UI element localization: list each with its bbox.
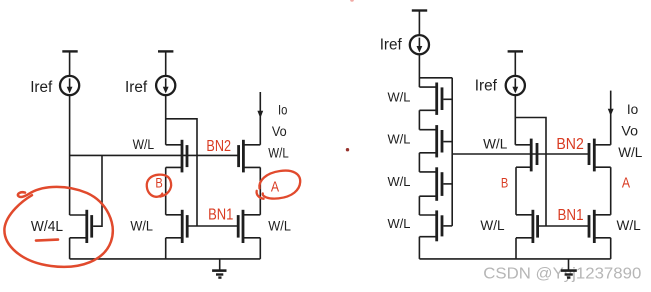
svg-text:Iref: Iref (380, 37, 403, 54)
svg-text:W/L: W/L (480, 218, 505, 233)
svg-text:A: A (622, 174, 630, 191)
node B wire (right circuit) (515, 167, 517, 215)
svg-text:Io: Io (627, 102, 639, 117)
node A wire (left circuit) (259, 167, 261, 214)
svg-text:W/L: W/L (388, 132, 411, 147)
svg-text:Iref: Iref (125, 79, 148, 96)
svg-text:Iref: Iref (30, 79, 53, 96)
wire: M1 source to ground rail (165, 238, 167, 259)
hand-drawn underline below W/4L (36, 240, 58, 241)
transistor cascode W/L (right circuit) (515, 139, 537, 172)
svg-text:Vo: Vo (272, 124, 287, 139)
svg-text:B: B (501, 175, 508, 191)
svg-text:W/L: W/L (617, 218, 642, 233)
current source Iref1 (left circuit, left branch) (60, 51, 79, 95)
svg-text:W/L: W/L (130, 218, 153, 233)
wire: W/4L source to ground rail (69, 238, 71, 259)
wire: cascode drain over to BN1 gate rail (166, 119, 197, 226)
wire: stack rail cell3-cell4 (418, 196, 420, 215)
ground rail (right circuit) (419, 258, 610, 260)
svg-text:BN1: BN1 (558, 207, 584, 224)
node B wire (left circuit) (165, 167, 167, 214)
transistor M2 W/L (BN1 row right device, left circuit) (238, 210, 260, 243)
svg-text:W/L: W/L (388, 89, 411, 104)
wire: Iref1 down to W/4L drain (69, 95, 71, 215)
ground symbol (left circuit) (212, 259, 226, 278)
wire: BN1 gate rail (left circuit) (187, 225, 238, 227)
transistor BN2 output cascode (right circuit) (589, 139, 611, 172)
svg-text:Iref: Iref (475, 78, 498, 95)
wire: Iref2 down to cascode drain (165, 95, 167, 145)
wire: M2 source to ground rail (right circuit) (610, 238, 612, 259)
hand-drawn oval around W/4L (4, 187, 112, 267)
current source Iref2 (left circuit, second branch) (156, 51, 175, 95)
svg-text:Io: Io (278, 102, 288, 117)
svg-text:W/L: W/L (618, 145, 643, 160)
wire: stack main rail from Iref down to first drain (418, 54, 420, 87)
transistor BN2 output cascode (left circuit) (239, 140, 261, 173)
transistor W/4L diode-connected bias device (70, 155, 102, 243)
transistor M2 W/L (BN1 row right device, right circuit) (589, 210, 611, 243)
wire: stack rail cell2-cell3 (418, 153, 420, 172)
hand-drawn hook near node A (257, 191, 264, 199)
svg-text:BN2: BN2 (206, 138, 231, 155)
current source Iref (right circuit, mirror branch) (506, 51, 525, 95)
svg-text:W/4L: W/4L (31, 219, 63, 235)
svg-text:W/L: W/L (388, 174, 411, 189)
svg-text:W/L: W/L (388, 216, 411, 231)
transistor M3 cascode W/L (left circuit) (166, 140, 187, 173)
wire: M2 source to ground rail (259, 238, 261, 259)
wire: cascode drain over to BN1 gate rail (right circuit) (515, 118, 546, 227)
stray red dot between circuits (346, 148, 349, 151)
svg-text:W/L: W/L (133, 137, 155, 152)
transistor M1 W/L (BN1 row left device, left circuit) (166, 210, 188, 243)
wire: BN1 gate rail (right circuit) (538, 225, 589, 227)
wire: node BN2 gate rail (left circuit) (70, 154, 239, 156)
svg-text:W/L: W/L (483, 137, 508, 152)
svg-text:A: A (271, 178, 279, 195)
wire: mirror Iref down to cascode drain (right circuit) (514, 95, 516, 145)
transistor stack cell 4 W/L (diode-connected) (419, 210, 452, 241)
Io output arrow (right circuit) (608, 91, 614, 145)
svg-text:W/L: W/L (268, 218, 291, 233)
wire: stack rail cell4 source to ground rail (418, 237, 420, 259)
node A wire (right circuit) (610, 167, 612, 215)
hand-drawn circle around node B (147, 175, 171, 197)
svg-text:Vo: Vo (621, 123, 638, 139)
transistor stack cell 2 W/L (diode-connected) (419, 125, 452, 157)
svg-text:BN2: BN2 (556, 136, 583, 153)
wire: BN2 gate rail (right circuit, from stack to output cascode) (452, 153, 589, 155)
svg-text:BN1: BN1 (208, 207, 233, 224)
wire: stack gate tie rail (451, 78, 453, 226)
transistor stack cell 3 W/L (diode-connected) (419, 167, 452, 201)
ground symbol (right circuit) (561, 259, 577, 278)
wire: stack rail cell1-cell2 (418, 110, 420, 129)
hand-drawn circle around node A (259, 171, 300, 199)
svg-text:W/L: W/L (268, 145, 289, 160)
wire: stack diode tie top (419, 77, 452, 79)
svg-text:CSDN @Yyj1237890: CSDN @Yyj1237890 (483, 265, 641, 282)
transistor M1 W/L (BN1 row left device, right circuit) (516, 210, 538, 243)
svg-text:B: B (155, 175, 162, 191)
current source Iref (right circuit, stack branch) (410, 11, 429, 55)
wire: M1 source to ground rail (right circuit) (515, 238, 517, 259)
transistor stack cell 1 W/L (diode-connected) (419, 83, 452, 115)
ground rail (left circuit) (70, 258, 261, 260)
Io output arrow (left circuit) (257, 92, 263, 145)
faint red mark at top edge (350, 0, 354, 2)
